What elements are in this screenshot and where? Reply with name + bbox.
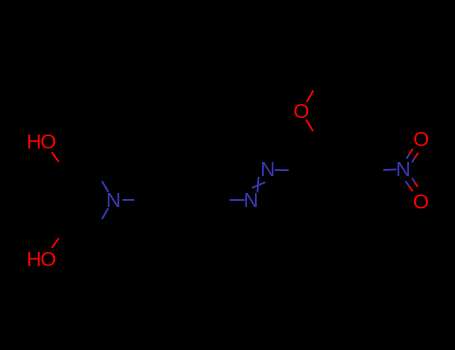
svg-text:N: N [244,190,259,212]
wire: nitro N=O bottom, outer stroke red half [409,186,413,191]
wire: azo N=N crossed line vertical [257,177,258,193]
wire: bond Ca-Cb top chain (black) [96,170,102,181]
node O1b: bottom hydroxyl label HO [27,249,57,271]
wire: benzene ring 1 (black, invisible) [148,170,217,230]
wire: bond C2'-O2 carbon half (black) [313,131,319,140]
wire: blue half-bond N-CH2 upper left [102,181,108,192]
node O1: top hydroxyl label HO [27,131,57,153]
svg-text:N: N [260,159,275,181]
wire: blue half-bond C4'-N3 nitro [383,168,396,171]
wire: red half-bond O1b to chain [52,238,59,248]
svg-text:N: N [106,190,121,212]
svg-text:O: O [413,129,429,151]
svg-text:H: H [27,249,42,271]
wire: nitro N=O bottom, outer stroke blue half [406,181,410,186]
svg-text:N: N [396,159,411,181]
wire: bond O2-CH3 carbon half (black) [314,81,319,90]
wire: bond O1b-Ca2 (carbon half, black) [59,229,96,238]
svg-text:H: H [27,131,42,153]
wire: nitro N=O top, inner stroke blue half [412,158,415,163]
wire: nitro N=O top, inner stroke red half [415,153,419,158]
wire: bond N2-C1' carbon half (black) [289,169,302,171]
wire: nitro N=O top, outer stroke red half [410,149,413,154]
wire: bond Ca2-Cb2 bottom chain (black) [96,219,102,230]
wire: red half-bond O1 to chain [52,152,59,162]
wire: blue half-bond N2-C1' ring2 [275,169,289,171]
wire: red half-bond O2 to ring2 [306,120,313,131]
wire: blue half-bond C4-N1 azo [230,199,245,201]
wire: nitro N=O bottom, inner stroke blue half [412,178,415,183]
svg-text:O: O [40,131,56,153]
wire: blue half-bond N-C1 ring1 [122,199,134,201]
svg-text:O: O [40,249,56,271]
svg-text:O: O [293,101,309,123]
svg-text:O: O [413,192,429,214]
wire: bond C4'-N3 carbon half (black) [371,169,383,171]
wire: bond C4-N1 carbon half (black) [217,199,230,201]
wire: red half-bond O2 to CH3 [307,90,314,102]
wire: benzene ring 2 (black, invisible) [302,140,372,200]
wire: nitro N=O bottom, inner stroke red half [415,183,418,187]
wire: blue half-bond N-CH2 lower left [102,208,108,219]
wire: bond O1-Ca (carbon half, black) [59,162,96,171]
wire: bond N-C1 carbon half (black) [134,199,147,201]
wire: nitro N=O top, outer stroke blue half [406,154,409,159]
wire: azo N=N crossed line shallow [252,182,265,188]
wire: ring1 inner double bonds (black) [168,176,218,225]
